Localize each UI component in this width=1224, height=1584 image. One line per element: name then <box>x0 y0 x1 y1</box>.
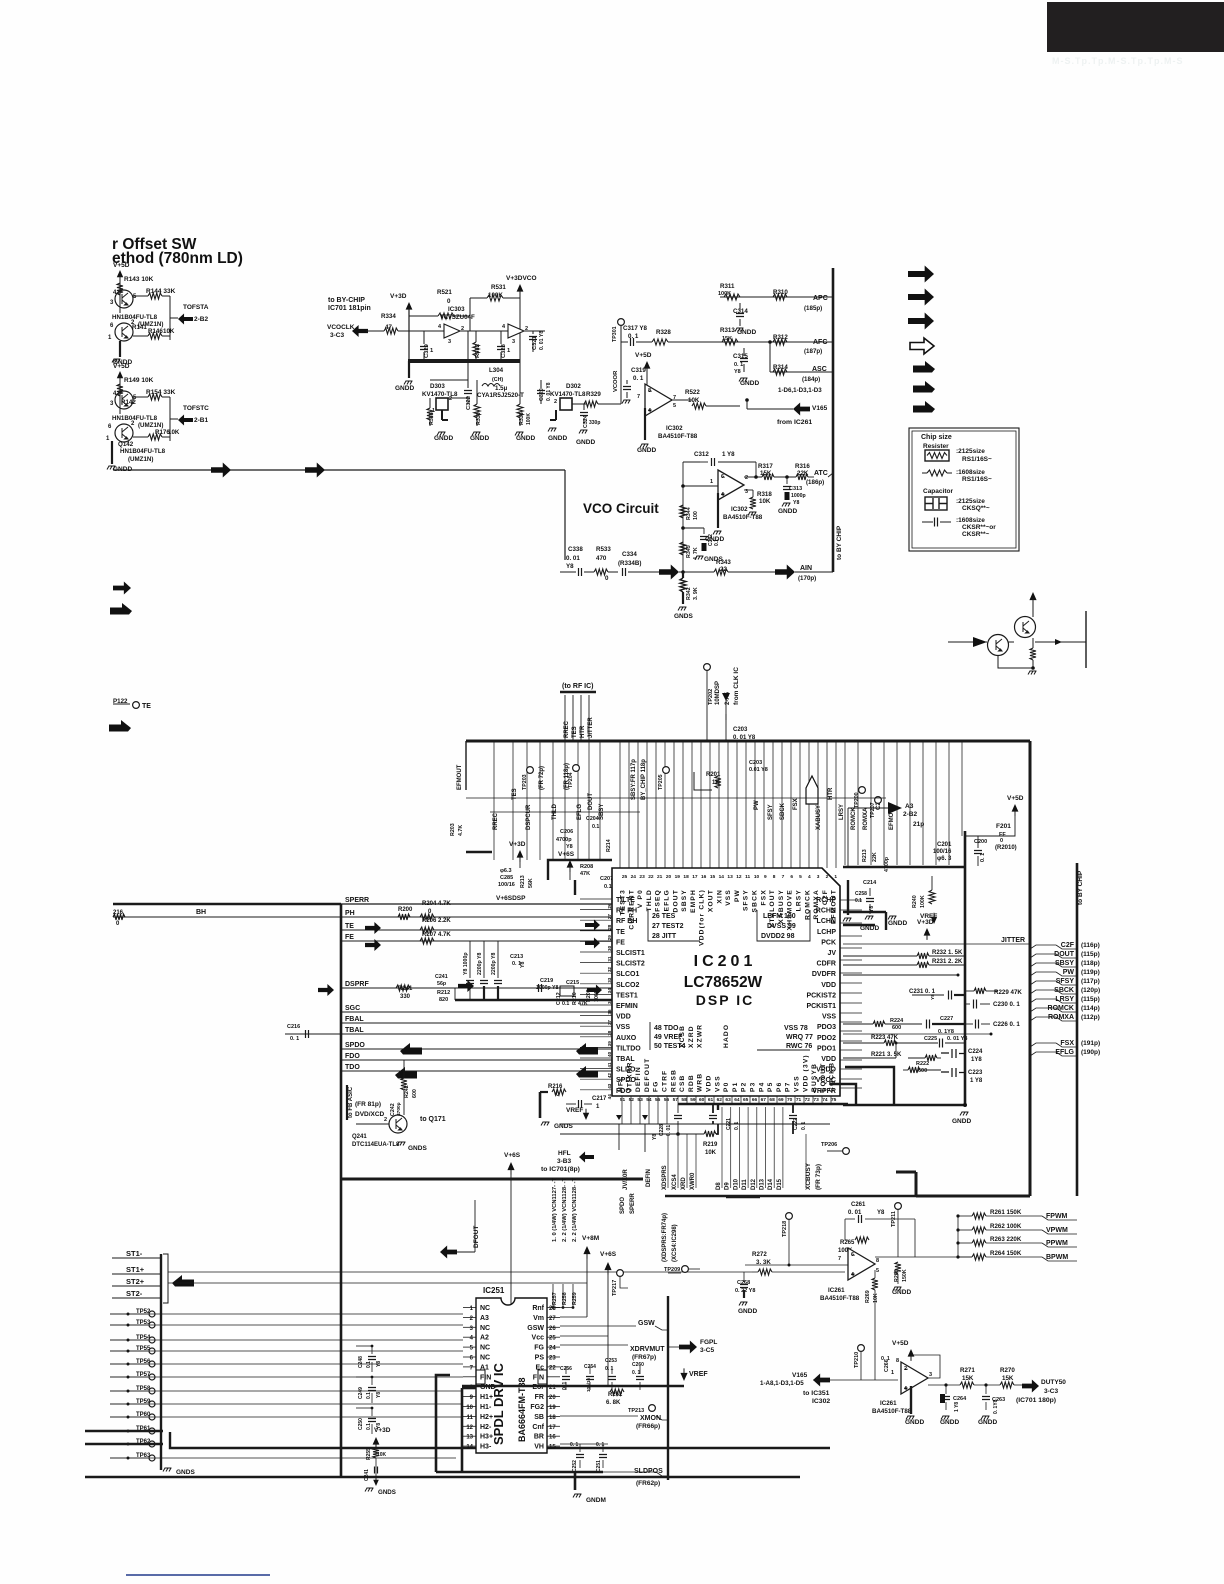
svg-text:4700p: 4700p <box>884 856 890 872</box>
svg-text:R311: R311 <box>720 283 735 290</box>
svg-text:JT/XRR: JT/XRR <box>626 1061 633 1092</box>
svg-text:R521: R521 <box>437 289 452 296</box>
svg-text:DVD/XCD: DVD/XCD <box>355 1111 385 1118</box>
svg-text:R146: R146 <box>148 328 163 335</box>
svg-text:P1: P1 <box>732 1082 739 1092</box>
svg-text:64: 64 <box>734 1097 740 1103</box>
svg-text:TDO: TDO <box>345 1064 360 1071</box>
svg-text:Y8: Y8 <box>734 369 741 375</box>
svg-text:(UMZ1N): (UMZ1N) <box>128 456 153 463</box>
svg-text:DEFIN: DEFIN <box>646 1169 652 1187</box>
svg-text:ST2-: ST2- <box>126 1289 143 1298</box>
svg-text:18: 18 <box>549 1415 556 1421</box>
svg-text:V+5D: V+5D <box>635 352 652 359</box>
svg-text:100/16: 100/16 <box>933 849 952 855</box>
svg-text:PS: PS <box>535 1355 545 1362</box>
svg-text:43: 43 <box>607 1083 612 1089</box>
svg-text:47K: 47K <box>580 871 590 877</box>
svg-text:P4: P4 <box>758 1082 765 1092</box>
svg-text:BR: BR <box>534 1434 544 1441</box>
svg-text:GNDD: GNDD <box>940 1419 959 1426</box>
svg-text:34: 34 <box>607 988 612 994</box>
svg-text:(116p): (116p) <box>1081 942 1100 949</box>
svg-text:R142: R142 <box>121 399 136 406</box>
svg-text:R261 150K: R261 150K <box>990 1209 1022 1216</box>
svg-text:GNDD: GNDD <box>737 329 756 336</box>
svg-text:C201: C201 <box>937 842 952 848</box>
svg-text:CURRENT: CURRENT <box>628 889 635 930</box>
svg-text:Y8: Y8 <box>652 1134 658 1140</box>
svg-text:R265: R265 <box>840 1240 855 1246</box>
svg-text:R231 2. 2K: R231 2. 2K <box>932 959 963 965</box>
svg-text:59: 59 <box>690 1097 696 1103</box>
svg-text:R203: R203 <box>450 823 456 836</box>
svg-text:24: 24 <box>631 874 637 880</box>
svg-text:3-C3: 3-C3 <box>1044 1388 1058 1395</box>
svg-text:8: 8 <box>648 388 651 394</box>
svg-text:XMON: XMON <box>640 1415 661 1422</box>
svg-text:2: 2 <box>449 396 452 402</box>
svg-text:V+3DVCO: V+3DVCO <box>506 275 537 282</box>
svg-text:JV: JV <box>827 950 836 957</box>
svg-text:C207: C207 <box>600 876 613 882</box>
svg-text:GNDD: GNDD <box>952 1118 971 1125</box>
svg-text:R314: R314 <box>773 364 788 371</box>
svg-text:Vm: Vm <box>533 1315 544 1322</box>
svg-text:0. 1: 0. 1 <box>633 375 644 382</box>
svg-text:C334: C334 <box>622 551 637 558</box>
svg-text:C317 Y8: C317 Y8 <box>623 325 648 332</box>
svg-text:FG2: FG2 <box>530 1404 544 1411</box>
svg-text:R212: R212 <box>437 990 450 996</box>
svg-text:V165: V165 <box>792 1372 808 1379</box>
svg-text:R204 4.7K: R204 4.7K <box>422 901 451 907</box>
svg-text:D302: D302 <box>566 383 581 390</box>
svg-text:0. 1: 0. 1 <box>570 1442 579 1448</box>
svg-text:3: 3 <box>929 1372 932 1378</box>
svg-text:C213: C213 <box>510 954 523 960</box>
svg-text:0. 22 Y8: 0. 22 Y8 <box>735 1288 755 1294</box>
svg-text:F201: F201 <box>996 823 1011 830</box>
svg-text:2: 2 <box>384 1117 387 1123</box>
svg-text:42: 42 <box>607 1073 612 1079</box>
svg-text:C206: C206 <box>560 829 573 835</box>
svg-text:R213: R213 <box>520 875 526 888</box>
svg-text:5: 5 <box>673 403 676 409</box>
svg-text:(191p): (191p) <box>1081 1040 1100 1047</box>
svg-text:TP206: TP206 <box>821 1142 837 1148</box>
svg-text:22K: 22K <box>872 852 878 862</box>
svg-text:C200: C200 <box>974 839 987 845</box>
svg-text:ASC: ASC <box>812 366 827 373</box>
svg-text:GNDD: GNDD <box>548 435 567 442</box>
svg-text:R318: R318 <box>757 491 772 498</box>
svg-text:0. 1Y8: 0. 1Y8 <box>993 1399 999 1414</box>
svg-text:THLD: THLD <box>646 889 653 911</box>
svg-text:D9: D9 <box>725 1182 731 1190</box>
svg-text:10: 10 <box>754 874 760 880</box>
svg-text:FIN: FIN <box>480 1374 491 1381</box>
svg-text:KV1470-TL8: KV1470-TL8 <box>422 391 458 398</box>
svg-text:600: 600 <box>892 1025 901 1031</box>
svg-text:24: 24 <box>549 1346 556 1352</box>
svg-text:28 JITT: 28 JITT <box>652 933 677 940</box>
svg-text:C230 0. 1: C230 0. 1 <box>993 1001 1020 1008</box>
svg-text:VSS: VSS <box>822 1014 836 1021</box>
svg-text:GNDS: GNDS <box>378 1489 396 1496</box>
svg-text:PDO3: PDO3 <box>817 1024 836 1031</box>
svg-text:75: 75 <box>831 1097 837 1103</box>
svg-text:to BY-CHIP: to BY-CHIP <box>328 297 365 304</box>
svg-text:10K: 10K <box>168 429 180 436</box>
svg-text:GNDD: GNDD <box>637 447 656 454</box>
svg-text:R207 4.7K: R207 4.7K <box>422 932 451 938</box>
svg-text:C203: C203 <box>733 727 748 733</box>
svg-text:21p: 21p <box>913 821 924 828</box>
svg-text:C313: C313 <box>789 486 802 492</box>
svg-text:AFC: AFC <box>813 339 827 346</box>
svg-text:VSS: VSS <box>616 1024 630 1031</box>
svg-text:R224: R224 <box>890 1018 904 1024</box>
svg-text:R269: R269 <box>865 1290 871 1303</box>
svg-text:VCOCLK: VCOCLK <box>327 324 355 331</box>
svg-text:FSEQ: FSEQ <box>655 889 662 912</box>
svg-text:0. 1: 0. 1 <box>290 1036 299 1042</box>
svg-text:R262 100K: R262 100K <box>990 1223 1022 1230</box>
svg-text:(XDSPRS:FR74p): (XDSPRS:FR74p) <box>662 1213 668 1262</box>
svg-text:(119p): (119p) <box>1081 969 1100 976</box>
svg-text:26 TES: 26 TES <box>652 913 676 920</box>
svg-text:(186p): (186p) <box>806 479 824 486</box>
svg-text:68: 68 <box>769 1097 775 1103</box>
svg-text:39: 39 <box>607 1041 612 1047</box>
svg-text:PDO2: PDO2 <box>817 1035 836 1042</box>
svg-text:C216: C216 <box>287 1024 300 1030</box>
svg-text:V+6S: V+6S <box>600 1251 617 1258</box>
svg-text:6: 6 <box>851 1252 854 1258</box>
svg-text:10K: 10K <box>163 328 175 335</box>
svg-text:EFMOUT: EFMOUT <box>457 764 463 790</box>
svg-text:XCSB: XCSB <box>679 1025 686 1048</box>
svg-text:7: 7 <box>782 874 785 880</box>
svg-text:(FR62p): (FR62p) <box>636 1480 660 1487</box>
svg-text:H1+: H1+ <box>480 1394 493 1401</box>
svg-text:FR: FR <box>535 1394 544 1401</box>
svg-text:WRB: WRB <box>697 1073 704 1092</box>
svg-text::2125size: :2125size <box>956 498 985 505</box>
svg-text:R316: R316 <box>795 463 810 470</box>
svg-text:C249: C249 <box>358 1387 364 1399</box>
svg-text:72: 72 <box>805 1097 811 1103</box>
svg-text:R328: R328 <box>656 329 671 336</box>
svg-text:3-C5: 3-C5 <box>700 1347 714 1354</box>
svg-text:C226 0. 1: C226 0. 1 <box>993 1021 1020 1028</box>
svg-text:CYA1R5J2520-T: CYA1R5J2520-T <box>477 392 524 399</box>
svg-text:TEST1: TEST1 <box>616 992 638 999</box>
svg-text:FG: FG <box>653 1080 660 1092</box>
svg-text:HFL: HFL <box>618 1076 625 1092</box>
svg-text:28: 28 <box>607 924 612 930</box>
svg-text:PCK: PCK <box>821 939 836 946</box>
svg-text:C225: C225 <box>924 1036 937 1042</box>
svg-text:(R334B): (R334B) <box>618 560 641 567</box>
svg-text:TOFSTC: TOFSTC <box>183 405 209 412</box>
svg-text:LRSY: LRSY <box>796 889 803 911</box>
svg-text:SPDL DRV IC: SPDL DRV IC <box>491 1363 506 1445</box>
svg-text:0. 1: 0. 1 <box>801 1121 807 1130</box>
svg-text:ethod (780nm LD): ethod (780nm LD) <box>112 250 243 267</box>
svg-text:SBSY: SBSY <box>681 889 688 912</box>
svg-text:1-D6,1-D3,1-D3: 1-D6,1-D3,1-D3 <box>778 387 822 394</box>
svg-text:PW: PW <box>1063 969 1075 976</box>
svg-text:FSX: FSX <box>793 798 799 810</box>
svg-text:C312: C312 <box>694 451 709 458</box>
svg-text:10: 10 <box>466 1405 473 1411</box>
svg-text:23: 23 <box>549 1356 556 1362</box>
svg-text:R310: R310 <box>773 289 788 296</box>
svg-text:19: 19 <box>549 1405 556 1411</box>
svg-text:AIN: AIN <box>800 565 812 572</box>
svg-text:SGC: SGC <box>345 1005 360 1012</box>
svg-text:D14: D14 <box>768 1178 774 1190</box>
svg-text:Y8: Y8 <box>520 962 526 968</box>
svg-text:(IC701 180p): (IC701 180p) <box>1016 1397 1056 1404</box>
svg-text:V P0: V P0 <box>637 889 644 908</box>
svg-text:44: 44 <box>607 1094 612 1100</box>
svg-text:1 Y8: 1 Y8 <box>954 1402 960 1412</box>
svg-text:0: 0 <box>605 575 609 582</box>
svg-text:C260: C260 <box>632 1362 644 1368</box>
svg-text:SLCO2: SLCO2 <box>616 982 639 989</box>
svg-text:GNDD: GNDD <box>434 435 453 442</box>
svg-text:56K: 56K <box>528 878 534 888</box>
svg-text:TOFSTA: TOFSTA <box>183 304 209 311</box>
svg-text:BA4510F-T88: BA4510F-T88 <box>723 514 763 521</box>
svg-text:GNDD: GNDD <box>860 925 879 932</box>
svg-text:4.7K: 4.7K <box>458 825 464 836</box>
svg-text:16: 16 <box>701 874 707 880</box>
svg-text:P6: P6 <box>776 1082 783 1092</box>
svg-text:VSS 78: VSS 78 <box>784 1025 808 1032</box>
svg-text:IC302: IC302 <box>731 506 748 513</box>
svg-text:TP209: TP209 <box>664 1267 680 1273</box>
svg-text:26: 26 <box>549 1326 556 1332</box>
svg-text:C338: C338 <box>568 546 583 553</box>
svg-text:30: 30 <box>607 945 612 951</box>
svg-text:C241: C241 <box>364 1469 370 1481</box>
svg-text:60: 60 <box>699 1097 705 1103</box>
svg-text:VSS: VSS <box>714 1075 721 1092</box>
svg-text:11: 11 <box>467 1415 474 1421</box>
svg-text:GNDD: GNDD <box>740 380 759 387</box>
svg-text:(115p): (115p) <box>1081 951 1100 958</box>
svg-text::2125size: :2125size <box>956 448 985 455</box>
svg-text:2. 2 (1/4W) VCN1128- -T: 2. 2 (1/4W) VCN1128- -T <box>562 1177 568 1242</box>
svg-text:(118p): (118p) <box>1081 960 1100 967</box>
svg-text:DVDD2 98: DVDD2 98 <box>761 933 795 940</box>
svg-text:C250: C250 <box>358 1418 364 1430</box>
svg-text:XDSPRS: XDSPRS <box>662 1165 668 1190</box>
svg-text:100/16: 100/16 <box>498 882 515 888</box>
svg-text:10K: 10K <box>873 1293 879 1303</box>
svg-text:APC: APC <box>813 295 828 302</box>
svg-text:R313: R313 <box>720 327 735 334</box>
svg-text:PH: PH <box>345 910 355 917</box>
svg-text:C224: C224 <box>968 1049 983 1055</box>
svg-text:C251: C251 <box>596 1460 602 1472</box>
svg-text:4: 4 <box>808 874 811 880</box>
svg-text:from CLK IC: from CLK IC <box>733 667 740 705</box>
svg-text:XHSMOVE: XHSMOVE <box>787 889 794 930</box>
svg-text:600: 600 <box>412 1089 418 1098</box>
svg-text:R200: R200 <box>398 907 413 913</box>
svg-text:63: 63 <box>725 1097 731 1103</box>
svg-text:67: 67 <box>761 1097 767 1103</box>
svg-text:69: 69 <box>778 1097 784 1103</box>
svg-text:TE: TE <box>142 703 151 710</box>
svg-text:H3+: H3+ <box>480 1434 493 1441</box>
svg-text:Q142: Q142 <box>118 441 134 448</box>
svg-text:0.1: 0.1 <box>855 898 862 904</box>
svg-text:XIN: XIN <box>716 889 723 904</box>
svg-text:RESB: RESB <box>670 1069 677 1092</box>
svg-text::1608size: :1608size <box>956 469 985 476</box>
svg-text:BUSYB: BUSYB <box>811 1063 818 1092</box>
svg-text:8: 8 <box>876 1258 879 1264</box>
svg-text:22: 22 <box>549 1365 556 1371</box>
svg-text:V+5D: V+5D <box>113 262 130 269</box>
svg-text:R342: R342 <box>686 587 692 600</box>
svg-text:R271: R271 <box>960 1367 975 1374</box>
svg-text:SPDO: SPDO <box>620 1197 626 1214</box>
svg-text:(120p): (120p) <box>1081 987 1100 994</box>
svg-text:0: 0 <box>1000 838 1003 844</box>
svg-text:C227: C227 <box>940 1016 953 1022</box>
svg-text:11: 11 <box>745 874 750 880</box>
svg-text:0. 01 Y8: 0. 01 Y8 <box>733 735 756 741</box>
svg-text:DFOUT: DFOUT <box>473 1226 480 1248</box>
svg-text:BY_CHIP 118p: BY_CHIP 118p <box>641 759 647 800</box>
svg-text:3: 3 <box>512 339 515 345</box>
svg-text:EMPH: EMPH <box>690 889 697 913</box>
svg-text:CDFR: CDFR <box>817 961 836 968</box>
svg-text:1-A8,1-D3,1-D5: 1-A8,1-D3,1-D5 <box>760 1380 804 1387</box>
svg-text:100K: 100K <box>526 413 532 425</box>
svg-text:RS1/16S~: RS1/16S~ <box>962 456 992 463</box>
svg-text:0. 1: 0. 1 <box>632 1370 641 1376</box>
svg-text:3-B3: 3-B3 <box>557 1158 571 1165</box>
svg-text:57: 57 <box>673 1097 679 1103</box>
svg-text:0.1: 0.1 <box>366 1392 372 1399</box>
svg-text:BA4510F-T88: BA4510F-T88 <box>820 1295 860 1302</box>
svg-text:SLCIST1: SLCIST1 <box>616 950 645 957</box>
svg-text:Q241: Q241 <box>352 1134 367 1140</box>
svg-text:to BY CHIP: to BY CHIP <box>1077 870 1084 905</box>
svg-text:33: 33 <box>607 977 612 983</box>
svg-text:PPWM: PPWM <box>1046 1240 1068 1247</box>
svg-text:ST1-: ST1- <box>126 1249 143 1258</box>
svg-text:C2F: C2F <box>822 889 829 905</box>
svg-text:(CH): (CH) <box>492 377 503 383</box>
svg-text:2-B2: 2-B2 <box>903 811 917 818</box>
svg-text:VDD: VDD <box>706 1074 713 1092</box>
svg-text:M-S.Tp.Tp.M-S.Tp.Tp.M-S: M-S.Tp.Tp.M-S.Tp.Tp.M-S <box>1052 56 1183 66</box>
svg-text:XOUT: XOUT <box>708 889 715 912</box>
svg-text:R206 2.2K: R206 2.2K <box>422 918 451 924</box>
svg-text:JV/X0R: JV/X0R <box>623 1169 629 1190</box>
svg-text:VREF: VREF <box>566 1107 583 1114</box>
svg-text:to Q171: to Q171 <box>420 1116 446 1123</box>
svg-text:C264: C264 <box>953 1396 967 1402</box>
svg-text:R263 220K: R263 220K <box>990 1236 1022 1243</box>
svg-text:RWC 76: RWC 76 <box>786 1043 812 1050</box>
svg-text:62: 62 <box>717 1097 723 1103</box>
svg-text:(184p): (184p) <box>802 376 820 383</box>
svg-text:ROMCK: ROMCK <box>851 807 857 830</box>
svg-text:22: 22 <box>648 874 654 880</box>
svg-text:SFSY: SFSY <box>1056 978 1075 985</box>
svg-text:17: 17 <box>692 874 698 880</box>
svg-text:2: 2 <box>554 399 557 405</box>
svg-text:(112p): (112p) <box>1081 1014 1100 1021</box>
svg-text:ST2+: ST2+ <box>126 1277 145 1286</box>
svg-text:PW: PW <box>754 800 760 810</box>
svg-text:CKSR**~: CKSR**~ <box>962 531 989 538</box>
svg-text:P2: P2 <box>741 1082 748 1092</box>
svg-text:CQCKB: CQCKB <box>829 1062 836 1092</box>
svg-text:C258: C258 <box>855 891 867 897</box>
svg-text:LCHP: LCHP <box>817 929 836 936</box>
svg-text:1.5µ: 1.5µ <box>495 385 508 392</box>
svg-text:GNDD: GNDD <box>778 508 797 515</box>
svg-text:C242: C242 <box>390 1103 396 1116</box>
svg-text:HN1B04FU-TL8: HN1B04FU-TL8 <box>112 415 158 422</box>
svg-text:GNDD: GNDD <box>738 1308 757 1315</box>
svg-text:6: 6 <box>790 874 793 880</box>
svg-text:17: 17 <box>549 1425 556 1431</box>
svg-text:52: 52 <box>629 1097 635 1103</box>
svg-text:D10: D10 <box>733 1178 739 1190</box>
svg-text:(FR66p): (FR66p) <box>636 1423 660 1430</box>
svg-text:TP200: TP200 <box>854 792 860 808</box>
svg-text:(114p): (114p) <box>1081 1005 1100 1012</box>
svg-text:TP202: TP202 <box>708 689 714 705</box>
svg-text:48 TDO: 48 TDO <box>654 1025 679 1032</box>
svg-text:R334: R334 <box>381 313 396 320</box>
svg-text:Y8: Y8 <box>877 1210 885 1216</box>
svg-text:1 Y8: 1 Y8 <box>722 451 735 458</box>
svg-text:15: 15 <box>549 1445 556 1451</box>
svg-text:2200p Y8: 2200p Y8 <box>477 952 483 975</box>
svg-text:EFLG: EFLG <box>664 889 671 911</box>
svg-text:R232 1. 5K: R232 1. 5K <box>932 950 963 956</box>
svg-text:ATC: ATC <box>814 470 828 477</box>
svg-text:C231 0. 1: C231 0. 1 <box>909 989 936 995</box>
svg-text:330p: 330p <box>589 420 600 426</box>
svg-text:V165: V165 <box>812 405 828 412</box>
svg-text:EFLG: EFLG <box>1055 1049 1074 1056</box>
svg-text:CSB: CSB <box>679 1074 686 1092</box>
svg-text:58: 58 <box>681 1097 687 1103</box>
svg-text:P3: P3 <box>750 1082 757 1092</box>
svg-text:Y8 1000p: Y8 1000p <box>463 953 469 976</box>
svg-text:(170p): (170p) <box>798 575 816 582</box>
svg-text:0. 01 Y8: 0. 01 Y8 <box>539 331 545 350</box>
svg-text:13: 13 <box>727 874 733 880</box>
svg-text:H3-: H3- <box>480 1444 492 1451</box>
svg-text:R222: R222 <box>916 1061 929 1067</box>
svg-text:DEFOUT: DEFOUT <box>644 1058 651 1092</box>
